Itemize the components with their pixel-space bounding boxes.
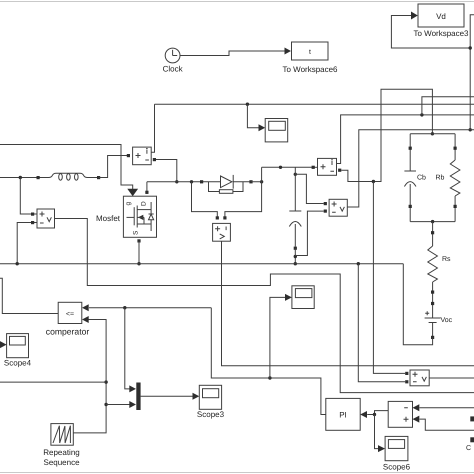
wire output node line [262, 166, 313, 168]
node leftline junction [104, 380, 107, 383]
arrow comparator input2 [82, 316, 89, 323]
pin Rb bottom port [454, 205, 457, 208]
To Workspace3 block Vd [414, 4, 470, 38]
voltage measurement V1 input wires [17, 178, 37, 264]
pin I1 + port [127, 154, 130, 157]
pin Rs top port [431, 231, 434, 234]
wire ground rail [0, 263, 403, 265]
pin mosfet source port [137, 239, 140, 242]
node rail V1 junction [16, 262, 19, 265]
voltage measurement V1 [37, 209, 55, 228]
svg-text:t: t [309, 49, 311, 56]
wire gate drive from left edge [0, 145, 138, 197]
wire mux input2 [106, 401, 136, 408]
resistor Rb [450, 160, 460, 196]
pin inductor left port [37, 176, 40, 179]
wire sum input1 from right edge [413, 404, 474, 411]
node iL scope branch [246, 103, 249, 106]
node rail battery-vmeas junction [357, 262, 360, 265]
svg-text:Cb: Cb [417, 174, 426, 182]
wire comparator output to left edge [0, 278, 58, 313]
node battery vmeas branch [372, 180, 375, 183]
svg-text:Vd: Vd [436, 12, 446, 21]
comparator block [46, 302, 90, 336]
wire battery node to V3 plus [373, 182, 405, 374]
scope Scope1 [265, 119, 288, 142]
node Vd-feedback junction [469, 46, 472, 49]
wire sum input2 from right edge [413, 416, 474, 431]
capacitor C [289, 211, 301, 247]
node source-rail junction [137, 262, 140, 265]
wire vmeas D + lead [192, 182, 218, 219]
pin V1 - port [31, 221, 34, 224]
svg-text:To Workspace6: To Workspace6 [283, 65, 339, 74]
wire Voc return to ground rail [403, 264, 432, 345]
pin Cb top port [409, 147, 412, 150]
wire V2 + lead [295, 174, 323, 203]
wire mosfet drain riser [146, 182, 148, 194]
figure bottom border [0, 472, 474, 474]
pin I2 - port [338, 169, 341, 172]
node mux branch on PI line [123, 306, 126, 309]
svg-text:Repeating: Repeating [43, 448, 79, 457]
pin inductor right port [97, 176, 100, 179]
svg-text:Scope3: Scope3 [197, 410, 225, 419]
node battery top junction [431, 132, 434, 135]
svg-text:Sequence: Sequence [43, 458, 80, 467]
inductor L [40, 173, 99, 180]
node error branch [373, 413, 376, 416]
node mux input2 junction [104, 403, 107, 406]
pin mosfet drain port [145, 191, 148, 194]
wire drain line [147, 181, 221, 183]
wire mux to Scope3 [141, 393, 200, 400]
wire duty to Scope [270, 294, 292, 378]
wire Rb top lead [454, 134, 456, 160]
voltage measurement VD diode [213, 223, 231, 241]
wire capacitor top lead [294, 167, 296, 211]
wire error to Scope6 [375, 415, 386, 453]
wire I2 signal output [337, 115, 474, 164]
wire mosfet source to rail [138, 241, 140, 264]
scope Scope3 [197, 385, 225, 419]
wire I1 signal output to i line [151, 104, 154, 152]
wire Rs bottom lead [432, 282, 434, 305]
pin Rb top port [454, 147, 457, 150]
pin Cb bottom port [409, 205, 412, 208]
wire Rs top lead [432, 222, 434, 246]
pin I2 + port [312, 166, 315, 169]
PI controller block [326, 398, 360, 430]
wire PI output line [211, 308, 325, 415]
wire mux input1 [125, 308, 136, 393]
svg-text:Scope4: Scope4 [4, 359, 32, 368]
wire cathode junction to output node [251, 167, 262, 182]
capacitor Cb [404, 171, 416, 222]
wire rail to V3 minus [358, 264, 405, 382]
cropped block stub lower right [470, 437, 474, 442]
voltage measurement V3 battery [410, 370, 429, 386]
node scope branch on PI output [268, 376, 271, 379]
node diode cathode junction [260, 180, 263, 183]
pin Voc bottom port [431, 336, 434, 339]
node battery bottom junction [431, 220, 434, 223]
wire V2 output Vd line [347, 130, 474, 207]
wire VD output line [222, 241, 474, 366]
cropped block stub upper right [470, 416, 474, 421]
node output line dot [279, 166, 282, 169]
pin vmeasD + port [216, 216, 219, 219]
pin Rs bottom port [431, 291, 434, 294]
pin V2 - port [324, 210, 327, 213]
figure top border [0, 1, 474, 3]
wire repeating sequence riser [73, 320, 106, 433]
wire sum to PI input [360, 411, 388, 418]
pin diode cathode port [249, 180, 252, 183]
wire iL to Scope1 [247, 104, 265, 131]
wire inductor to current sensor I1 [99, 156, 128, 178]
pin V1 + port [31, 213, 34, 216]
svg-text:D: D [141, 201, 148, 206]
svg-text:g: g [125, 202, 132, 206]
pin I1 - port [153, 158, 156, 161]
wire capacitor to rail [294, 248, 296, 264]
pin V3 + port [405, 372, 408, 375]
To Workspace6 block [283, 42, 339, 74]
node capacitor rail junction [294, 262, 297, 265]
svg-text:To Workspace3: To Workspace3 [414, 29, 470, 38]
svg-text:C: C [466, 445, 471, 452]
pin Voc top port [431, 302, 434, 305]
snubber RC of diode [209, 182, 244, 194]
sum block flipped [388, 401, 412, 427]
wire Vd feedback to To Workspace3 [391, 12, 474, 130]
voltage measurement V2 output [329, 199, 347, 216]
wire V2 - lead [295, 211, 323, 255]
repeating sequence block [43, 424, 80, 467]
wire output node to I2 [313, 166, 318, 168]
node diode vmeas + branch [190, 180, 193, 183]
resistor Rs [428, 246, 438, 282]
svg-text:Clock: Clock [163, 65, 184, 74]
svg-text:Scope6: Scope6 [383, 463, 411, 472]
node drain-I1 junction [175, 180, 178, 183]
wire battery parallel top [410, 133, 455, 135]
svg-text:Voc: Voc [441, 317, 453, 324]
wire Cb top lead [409, 134, 411, 171]
wire Clock to To Workspace6 [180, 48, 291, 56]
node capacitor branch [294, 173, 297, 176]
dc source Voc [425, 305, 441, 337]
wire I2 minus to battery top [341, 89, 432, 181]
scope Scope duty [292, 286, 314, 309]
svg-text:Rb: Rb [436, 174, 445, 182]
wire PI line to comparator input1 [82, 304, 211, 311]
pin vmeasD - port [223, 216, 226, 219]
wire Rb bottom lead [454, 196, 456, 222]
diode D1 [221, 175, 252, 189]
svg-text:<=: <= [66, 311, 74, 318]
wire I2 signal branch upper [422, 97, 474, 115]
wire vmeas D - lead [225, 182, 262, 219]
node capacitor vminus junction [294, 255, 297, 258]
svg-text:S: S [133, 230, 140, 235]
pin diode anode port [200, 180, 203, 183]
wire to left edge [0, 381, 106, 383]
pin V2 + port [324, 202, 327, 205]
current measurement I1 [133, 147, 152, 165]
svg-text:Rs: Rs [442, 256, 451, 263]
wire I1 minus to drain node [156, 160, 177, 182]
node Vd-line junction [469, 128, 472, 131]
wire battery parallel bottom [410, 221, 455, 223]
scope Scope6 [383, 436, 411, 471]
scope Scope4 [0, 334, 32, 368]
node I2 signal branch [420, 113, 423, 116]
mosfet block Q1 [123, 196, 156, 237]
wire inductor current line iL [155, 103, 474, 105]
wire V1 output Vin measurement [55, 219, 474, 393]
svg-text:PI: PI [339, 411, 347, 420]
svg-text:Mosfet: Mosfet [96, 214, 121, 223]
pin capacitor bottom port [294, 247, 297, 250]
wire V3 output [429, 377, 474, 379]
clock [163, 48, 184, 73]
pin V3 - port [405, 380, 408, 383]
mux block [136, 383, 140, 411]
wire source line from left edge [0, 177, 48, 179]
current measurement I2 [318, 158, 337, 175]
svg-text:comperator: comperator [46, 327, 90, 337]
node input junction [19, 176, 22, 179]
